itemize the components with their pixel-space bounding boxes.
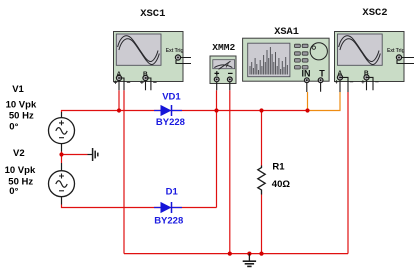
svg-text:BY228: BY228: [156, 117, 185, 128]
junction node R1 bottom on rail: [259, 252, 263, 256]
wire orange XSA1 IN riser: [307, 92, 309, 111]
wire main bus V1 top to XSA1 junction: [62, 111, 308, 113]
junction node XMM2- on rail: [228, 252, 232, 256]
wire XSC1 A+ riser: [118, 90, 120, 110]
svg-text:XMM2: XMM2: [212, 42, 235, 53]
wire XMM2 plus riser to D1 wire: [216, 90, 218, 207]
ground bottom: [243, 254, 256, 267]
diode VD1: [154, 105, 182, 116]
source V2: [49, 163, 75, 205]
junction node ground on rail: [247, 252, 251, 256]
wire center tap to ground: [62, 154, 88, 156]
junction node R1 top on bus: [259, 108, 263, 112]
wire V1 V2 center tap: [61, 152, 63, 164]
svg-text:IN: IN: [302, 69, 311, 79]
wire R1 bottom: [261, 195, 263, 254]
spectrum analyzer XSA1: [243, 38, 330, 92]
svg-text:R1: R1: [272, 161, 285, 172]
svg-text:V2: V2: [13, 148, 25, 159]
svg-text:V1: V1: [12, 84, 24, 95]
resistor R1: [258, 166, 265, 195]
wire XSC1 A- riser to rail: [123, 90, 125, 253]
svg-text:VD1: VD1: [162, 92, 181, 103]
junction node XMM2+/D1 on bus: [214, 108, 218, 112]
oscilloscope U XSC2: [335, 32, 415, 93]
svg-text:10 Vpk: 10 Vpk: [6, 99, 37, 110]
svg-text:0°: 0°: [9, 186, 18, 197]
wire R1 top: [261, 111, 263, 166]
diode D1: [154, 202, 182, 213]
wire bottom rail: [124, 253, 348, 255]
oscilloscope U XSC1: [114, 32, 192, 91]
junction node XSC1 A+ on bus: [117, 108, 121, 112]
svg-text:XSC2: XSC2: [362, 7, 387, 19]
svg-text:XSA1: XSA1: [274, 26, 299, 38]
multimeter XMM2: [210, 56, 236, 90]
svg-text:0°: 0°: [9, 122, 18, 133]
source V1: [49, 112, 75, 152]
svg-text:T: T: [319, 69, 325, 79]
wire orange bus to XSC2 A+: [308, 92, 341, 111]
junction node XSA1 IN on bus: [305, 108, 309, 112]
wire XSC2 A- riser to rail: [347, 92, 349, 254]
svg-text:Ext Trig: Ext Trig: [387, 48, 405, 54]
wire XMM2 minus riser to rail: [229, 90, 231, 253]
junction node center tap: [59, 152, 63, 156]
svg-text:XSC1: XSC1: [140, 8, 165, 20]
svg-text:D1: D1: [166, 186, 179, 197]
svg-text:10 Vpk: 10 Vpk: [5, 165, 36, 176]
svg-text:BY228: BY228: [154, 216, 183, 227]
wire V2 bottom to D1 bus: [62, 205, 217, 208]
svg-text:50 Hz: 50 Hz: [9, 110, 34, 121]
svg-text:Ext Trig: Ext Trig: [166, 48, 184, 54]
ground center tap (rotated): [88, 148, 98, 161]
svg-text:40Ω: 40Ω: [272, 179, 291, 190]
